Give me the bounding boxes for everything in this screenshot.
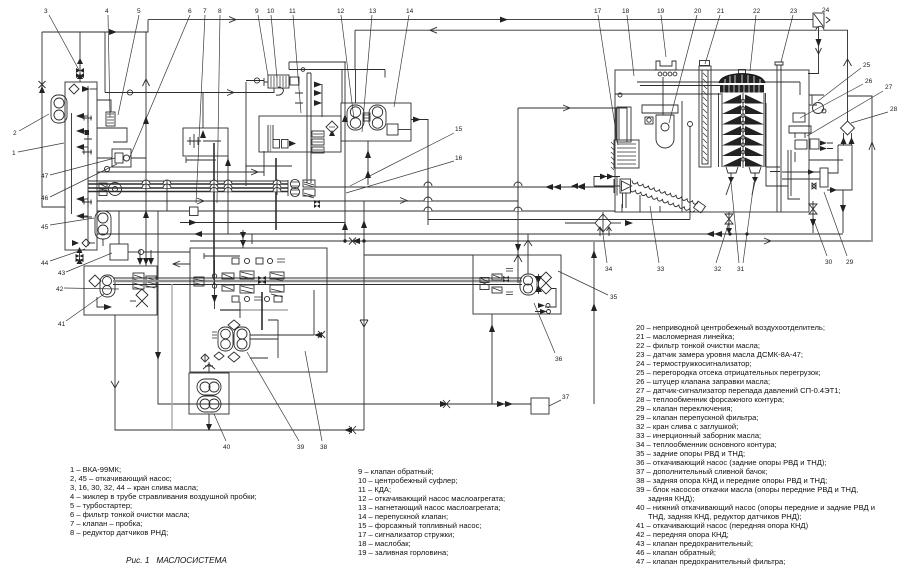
svg-text:5: 5: [137, 8, 141, 15]
box 36: [364, 255, 561, 314]
pump at tank exit: [99, 183, 122, 196]
check valve 46: [104, 166, 109, 171]
callout number 1: [12, 143, 64, 157]
svg-text:39 – блок насосов откачки масл: 39 – блок насосов откачки масла (опоры п…: [636, 485, 858, 494]
callout number 30: [813, 218, 833, 266]
vent pipes pair: [307, 73, 311, 183]
svg-text:46 – клапан обратный;: 46 – клапан обратный;: [636, 548, 716, 557]
callout number 18: [622, 8, 634, 76]
svg-text:21: 21: [717, 8, 725, 15]
svg-text:12: 12: [337, 8, 345, 15]
callout number 26: [800, 78, 873, 118]
filter 22 fir-tree stack: [719, 93, 766, 167]
KDA box 11: [341, 103, 411, 141]
svg-text:23: 23: [790, 8, 798, 15]
callout number 29: [824, 192, 854, 266]
redraw crossing verticals: [146, 27, 819, 225]
svg-text:20 – неприводной центробежный: 20 – неприводной центробежный воздухоотд…: [636, 323, 825, 332]
svg-text:29 – клапан перепускной фильтр: 29 – клапан перепускной фильтра;: [636, 413, 758, 422]
wire 42 to bottom: [111, 315, 364, 434]
pump 12: [347, 105, 364, 130]
inertia intake 33 funnel: [571, 174, 632, 209]
diamond fitting bottom of block 1: [72, 239, 95, 247]
svg-text:27 – датчик-сигнализатор переп: 27 – датчик-сигнализатор перепада давлен…: [636, 386, 841, 395]
callout number 15: [350, 126, 463, 186]
tank inner top lines: [615, 82, 800, 95]
callout number 44: [41, 249, 85, 267]
wires around 40: [203, 362, 215, 431]
svg-text:36 – откачивающий насос (задни: 36 – откачивающий насос (задние опоры РВ…: [636, 458, 827, 467]
callout number 47: [41, 158, 115, 180]
tank right outlet wires: [795, 105, 843, 162]
svg-text:2, 45 – откачивающий насос;: 2, 45 – откачивающий насос;: [70, 474, 172, 483]
bearing hatches on shaft center: [194, 260, 284, 309]
gray tee in 39: [220, 292, 288, 330]
svg-text:34 – теплообменник основного к: 34 – теплообменник основного контура;: [636, 440, 777, 449]
right loop wires: [848, 96, 876, 242]
valve 44: [76, 247, 84, 264]
wire left vertical: [39, 32, 66, 207]
callout number 42: [56, 286, 119, 293]
callout number 6: [129, 8, 192, 159]
svg-text:6: 6: [188, 8, 192, 15]
callout number 43: [58, 253, 112, 277]
callout number 8: [217, 8, 222, 203]
svg-text:6 – фильтр тонкой очистки масл: 6 – фильтр тонкой очистки масла;: [70, 510, 190, 519]
svg-text:15: 15: [455, 126, 463, 133]
suflier 10: [264, 75, 299, 88]
svg-text:4 – жиклер в трубе стравливани: 4 – жиклер в трубе стравливания воздушно…: [70, 492, 257, 501]
callout number 12: [337, 8, 354, 119]
callout number 7: [196, 8, 207, 203]
svg-text:21 – масломерная линейка;: 21 – масломерная линейка;: [636, 332, 734, 341]
svg-text:1 – ВКА-99МК;: 1 – ВКА-99МК;: [70, 465, 121, 474]
callout number 2: [13, 114, 49, 137]
striped filter element: [268, 125, 296, 152]
long line y234: [97, 230, 843, 248]
svg-text:43 – клапан предохранительный;: 43 – клапан предохранительный;: [636, 539, 753, 548]
wire return top y30: [355, 27, 852, 118]
drain valve 30: [809, 201, 817, 233]
svg-text:5 – турбостартер;: 5 – турбостартер;: [70, 501, 132, 510]
callout number 46: [41, 164, 117, 202]
callout number 16: [346, 155, 463, 193]
arrows on vent pipe: [295, 68, 335, 136]
svg-text:28 – теплообменник форсажного: 28 – теплообменник форсажного контура;: [636, 395, 784, 404]
svg-text:26: 26: [865, 78, 873, 85]
valves inside block 1: [72, 113, 93, 219]
long line y218: [180, 220, 345, 226]
extra tank bottle 37: [531, 398, 549, 414]
svg-text:13 – нагнетающий насос маслоаг: 13 – нагнетающий насос маслоагрегата;: [358, 503, 501, 512]
drain vertical x146: [143, 32, 150, 266]
svg-text:41: 41: [58, 321, 66, 328]
callout number 39: [247, 352, 305, 451]
svg-text:задняя КНД);: задняя КНД);: [648, 494, 694, 503]
tank internal wall: [766, 103, 800, 199]
svg-text:10: 10: [267, 8, 275, 15]
legend column 1: [70, 465, 257, 537]
svg-text:26 – штуцер клапана заправки м: 26 – штуцер клапана заправки масла;: [636, 377, 770, 386]
wire box36 bottom drop: [489, 314, 495, 404]
svg-text:24 – термостружкосигнализатор;: 24 – термостружкосигнализатор;: [636, 359, 752, 368]
pump block 39 box: [190, 248, 327, 372]
callout number 11: [289, 8, 301, 113]
callout number 19: [657, 8, 666, 57]
vent line y92: [105, 32, 274, 96]
svg-text:3, 16, 30, 32, 44 – кран слива: 3, 16, 30, 32, 44 – кран слива масла;: [70, 483, 198, 492]
filter feet: [726, 167, 761, 195]
pump 36 internals: [480, 255, 556, 314]
scavenge pump block 16: [288, 179, 315, 198]
svg-text:4: 4: [105, 8, 109, 15]
svg-text:35 – задние опоры РВД и ТНД;: 35 – задние опоры РВД и ТНД;: [636, 449, 745, 458]
svg-text:10 – центробежный суфлер;: 10 – центробежный суфлер;: [358, 476, 458, 485]
pump 2: [51, 95, 67, 123]
pump 45: [95, 211, 111, 246]
deaerator 20 dark fan: [719, 70, 765, 84]
callout number 41: [58, 294, 104, 328]
lower pump 40 box: [189, 373, 229, 414]
valve near pump block: [314, 200, 320, 208]
svg-text:25: 25: [863, 62, 871, 69]
pump 13: [369, 105, 386, 130]
svg-text:41 – откачивающий насос (перед: 41 – откачивающий насос (передняя опора …: [636, 521, 809, 530]
svg-text:33: 33: [657, 266, 665, 273]
svg-text:Рис. 1 МАСЛОСИСТЕМА: Рис. 1 МАСЛОСИСТЕМА: [126, 555, 227, 565]
turbostarter 5 branch: [97, 128, 127, 142]
svg-text:38 – задняя опора КНД и передн: 38 – задняя опора КНД и передние опоры Р…: [636, 476, 827, 485]
svg-text:45: 45: [41, 224, 49, 231]
svg-text:42 – передняя опора КНД;: 42 – передняя опора КНД;: [636, 530, 729, 539]
svg-text:19: 19: [657, 8, 665, 15]
wires in 39 lower: [201, 290, 325, 362]
svg-text:11 – КДА;: 11 – КДА;: [358, 485, 391, 494]
wire KDA to right: [411, 117, 428, 220]
callout number 14: [394, 8, 414, 107]
callout number 17: [594, 8, 618, 145]
svg-text:22 – фильтр тонкой очистки мас: 22 – фильтр тонкой очистки масла;: [636, 341, 760, 350]
svg-text:8 – редуктор датчиков РНД;: 8 – редуктор датчиков РНД;: [70, 528, 168, 537]
svg-text:18: 18: [622, 8, 630, 15]
callout number 45: [41, 218, 94, 231]
svg-text:39: 39: [297, 444, 305, 451]
svg-text:16: 16: [455, 155, 463, 162]
gray shaft lines: [113, 278, 522, 430]
callout number 22: [750, 8, 761, 71]
front support 42 box: [84, 266, 157, 315]
chip detector 17 striped box: [611, 140, 639, 170]
svg-text:34: 34: [605, 266, 613, 273]
filter center rod: [741, 93, 745, 168]
long line y201: [97, 105, 627, 255]
svg-text:32 – кран слива с заглушкой;: 32 – кран слива с заглушкой;: [636, 422, 738, 431]
wire top-left horizontal: [42, 20, 148, 35]
svg-text:29 – клапан переключения;: 29 – клапан переключения;: [636, 404, 733, 413]
callout number 38: [305, 351, 328, 451]
svg-text:17 – сигнализатор стружки;: 17 – сигнализатор стружки;: [358, 530, 454, 539]
svg-text:43: 43: [58, 270, 66, 277]
drain fittings under 42: [97, 289, 148, 310]
svg-text:7 – клапан – пробка;: 7 – клапан – пробка;: [70, 519, 142, 528]
svg-text:36: 36: [555, 356, 563, 363]
pump suction drop: [356, 70, 372, 186]
svg-text:38: 38: [320, 444, 328, 451]
breather top lines: [289, 62, 385, 103]
wire top main horizontal: [148, 17, 813, 23]
baffle 25: [809, 95, 826, 114]
jiggle 4 tube: [97, 100, 115, 126]
heat exchanger 34: [595, 212, 633, 236]
callout number 35: [558, 271, 618, 301]
svg-text:2: 2: [13, 130, 17, 137]
wires under tank: [565, 195, 660, 223]
legend column 3: [636, 323, 875, 566]
callout number 10: [267, 8, 277, 78]
valve arrows above 42: [137, 250, 154, 265]
legend column 2: [358, 467, 505, 557]
long line y242: [190, 238, 871, 245]
callout number 24: [822, 7, 830, 14]
callout number 9: [255, 8, 268, 76]
filler neck 19: [654, 61, 678, 76]
svg-text:15 – форсажный топливный насос: 15 – форсажный топливный насос;: [358, 521, 482, 530]
callout number 3: [44, 8, 79, 70]
wire crossing humps: [142, 26, 824, 211]
drain valve 3: [76, 32, 84, 82]
filter stack 6: [312, 131, 324, 153]
callout number 23: [781, 8, 798, 62]
pump 41: [89, 275, 115, 297]
block 1 VKA-99MK tall box: [65, 82, 97, 250]
small fittings below shaft: [232, 296, 282, 302]
svg-text:7: 7: [203, 8, 207, 15]
svg-text:40: 40: [223, 444, 231, 451]
callout number 20: [669, 8, 702, 123]
heat exchanger 28: [827, 118, 855, 233]
svg-text:11: 11: [289, 8, 296, 15]
callout number 34: [603, 234, 613, 273]
svg-text:13: 13: [369, 8, 377, 15]
diamond fitting 6: [326, 121, 338, 133]
svg-text:8: 8: [218, 8, 222, 15]
svg-text:37 – дополнительный сливной ба: 37 – дополнительный сливной бачок;: [636, 467, 767, 476]
svg-text:27: 27: [885, 84, 893, 91]
svg-text:29: 29: [846, 259, 854, 266]
callout number 40: [214, 414, 231, 451]
svg-text:40 – нижний откачивающий насос: 40 – нижний откачивающий насос (опоры пе…: [636, 503, 875, 512]
svg-text:35: 35: [610, 294, 618, 301]
oil fill valve 26: [789, 113, 811, 138]
safety valve 43 box: [110, 211, 190, 267]
reducer 8 box: [183, 93, 231, 286]
pressure sensor 27: [795, 139, 833, 151]
svg-text:9: 9: [255, 8, 259, 15]
switch valve 29: [782, 168, 828, 189]
svg-text:1: 1: [12, 150, 16, 157]
vertical x364: [360, 255, 368, 430]
svg-text:31: 31: [737, 266, 745, 273]
breather drop center: [245, 82, 247, 186]
drain cock 32: [725, 212, 733, 234]
wire 42 right edge down: [155, 211, 531, 408]
svg-text:3: 3: [44, 8, 48, 15]
wire top drop x345: [342, 62, 367, 255]
wire box36 top: [524, 234, 532, 255]
bearing hatches in 42: [133, 273, 156, 290]
wire bypass y221: [428, 219, 690, 221]
svg-text:14 – перепускной клапан;: 14 – перепускной клапан;: [358, 512, 448, 521]
svg-text:30: 30: [825, 259, 833, 266]
callout number 4: [105, 8, 110, 117]
dipstick 21: [699, 61, 711, 168]
wire into suflier: [246, 78, 283, 95]
svg-text:25 – перегородка отсека отрица: 25 – перегородка отсека отрицательных пе…: [636, 368, 821, 377]
small fittings above shaft: [232, 258, 285, 264]
inertia intake 33 coil: [630, 181, 705, 213]
oil tank 18: [615, 70, 809, 212]
safety valve 47: [97, 149, 146, 167]
diamond fitting top of block 1: [69, 84, 97, 94]
level sensor 23: [775, 62, 783, 212]
callout number 13: [362, 8, 377, 132]
svg-text:44: 44: [41, 260, 49, 267]
gear column wires: [97, 151, 264, 176]
svg-text:9 – клапан обратный;: 9 – клапан обратный;: [358, 467, 434, 476]
callout number 5: [118, 8, 141, 115]
svg-text:12 – откачивающий насос маслоа: 12 – откачивающий насос маслоагрегата;: [358, 494, 505, 503]
svg-text:14: 14: [406, 8, 414, 15]
coupler hatch: [363, 113, 370, 121]
bypass valve 14: [387, 124, 411, 135]
deaerator hatch band: [720, 85, 764, 93]
callout number 21: [705, 8, 725, 64]
pressure line to tank: [315, 184, 614, 190]
callout number 33: [650, 206, 665, 273]
svg-text:37: 37: [562, 394, 570, 401]
svg-text:22: 22: [753, 8, 761, 15]
callout number 27: [807, 84, 893, 136]
svg-text:18 – маслобак;: 18 – маслобак;: [358, 539, 411, 548]
svg-text:23 – датчик замера уровня масл: 23 – датчик замера уровня масла ДСМК-8А-…: [636, 350, 803, 359]
tank inlet pipes: [616, 77, 693, 220]
svg-text:33 – инерционный заборник масл: 33 – инерционный заборник масла;: [636, 431, 761, 440]
svg-text:42: 42: [56, 286, 64, 293]
main suction bundle: [88, 181, 288, 192]
callout number 37: [549, 394, 570, 406]
long line y210: [97, 207, 615, 216]
callout number 32: [714, 222, 729, 273]
callout number 31: [731, 182, 754, 273]
callout number 36: [534, 303, 563, 363]
pumps in block 39: [212, 320, 250, 362]
svg-text:32: 32: [714, 266, 722, 273]
svg-text:20: 20: [694, 8, 702, 15]
svg-text:17: 17: [594, 8, 602, 15]
svg-text:47 – клапан предохранительный: 47 – клапан предохранительный фильтра;: [636, 557, 785, 566]
thermo sensor 24: [808, 13, 830, 74]
callout number 28: [851, 106, 898, 123]
filter housing box: [259, 116, 341, 152]
svg-text:ТНД, задняя КНД, редуктор датч: ТНД, задняя КНД, редуктор датчиков РНД);: [648, 512, 802, 521]
vertical x594: [591, 242, 597, 404]
svg-text:19 – заливная горловина;: 19 – заливная горловина;: [358, 548, 448, 557]
tee bar center: [246, 158, 292, 230]
svg-text:28: 28: [890, 106, 898, 113]
callout number 25: [818, 62, 871, 101]
